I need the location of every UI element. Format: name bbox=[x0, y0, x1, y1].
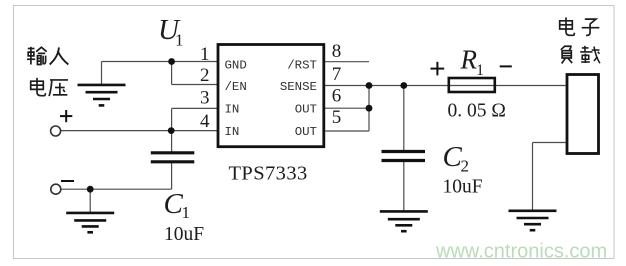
svg-text:OUT: OUT bbox=[295, 102, 317, 116]
svg-text:10uF: 10uF bbox=[164, 224, 204, 245]
svg-text:GND: GND bbox=[225, 59, 247, 73]
svg-text:/RST: /RST bbox=[287, 59, 317, 73]
svg-text:C: C bbox=[443, 141, 463, 173]
svg-text:SENSE: SENSE bbox=[280, 80, 317, 94]
svg-text:10uF: 10uF bbox=[443, 177, 483, 198]
svg-text:TPS7333: TPS7333 bbox=[229, 162, 308, 184]
svg-text:0. 05 Ω: 0. 05 Ω bbox=[448, 101, 506, 122]
svg-text:C: C bbox=[164, 188, 184, 220]
svg-text:8: 8 bbox=[332, 41, 342, 62]
svg-text:1: 1 bbox=[182, 203, 191, 222]
svg-text:IN: IN bbox=[225, 102, 240, 116]
svg-text:1: 1 bbox=[200, 44, 210, 65]
svg-text:2: 2 bbox=[461, 157, 470, 176]
svg-text:6: 6 bbox=[332, 86, 342, 107]
svg-text:3: 3 bbox=[200, 88, 210, 109]
svg-text:7: 7 bbox=[332, 64, 342, 85]
svg-text:/EN: /EN bbox=[225, 80, 247, 94]
svg-text:1: 1 bbox=[175, 31, 184, 50]
svg-text:www.cntronics.com: www.cntronics.com bbox=[435, 241, 607, 263]
svg-text:1: 1 bbox=[476, 62, 484, 79]
svg-text:2: 2 bbox=[200, 65, 210, 86]
svg-text:4: 4 bbox=[200, 111, 210, 132]
svg-text:IN: IN bbox=[225, 125, 240, 139]
svg-text:5: 5 bbox=[332, 107, 342, 128]
svg-text:OUT: OUT bbox=[295, 125, 317, 139]
svg-text:R: R bbox=[460, 45, 478, 75]
